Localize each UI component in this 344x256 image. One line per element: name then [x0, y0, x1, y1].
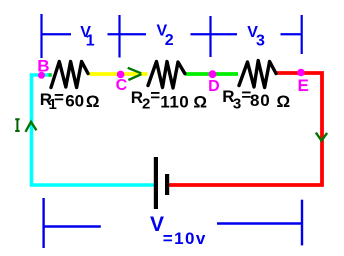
svg-text:3: 3 [233, 95, 241, 112]
svg-text:Ω: Ω [193, 93, 207, 112]
svg-text:2: 2 [142, 96, 150, 113]
svg-text:=: = [54, 88, 64, 107]
svg-text:=: = [150, 86, 160, 105]
svg-text:1: 1 [86, 33, 95, 50]
svg-text:2: 2 [165, 32, 174, 49]
svg-text:C: C [116, 77, 128, 94]
svg-text:Ω: Ω [86, 92, 100, 111]
svg-text:110: 110 [160, 92, 189, 111]
svg-text:=10v: =10v [163, 229, 207, 248]
svg-text:80: 80 [250, 91, 271, 110]
svg-text:D: D [208, 78, 220, 95]
svg-text:B: B [37, 57, 49, 76]
svg-text:60: 60 [65, 92, 84, 111]
svg-text:3: 3 [256, 32, 265, 49]
svg-text:E: E [298, 76, 309, 95]
svg-text:Ω: Ω [277, 92, 291, 111]
